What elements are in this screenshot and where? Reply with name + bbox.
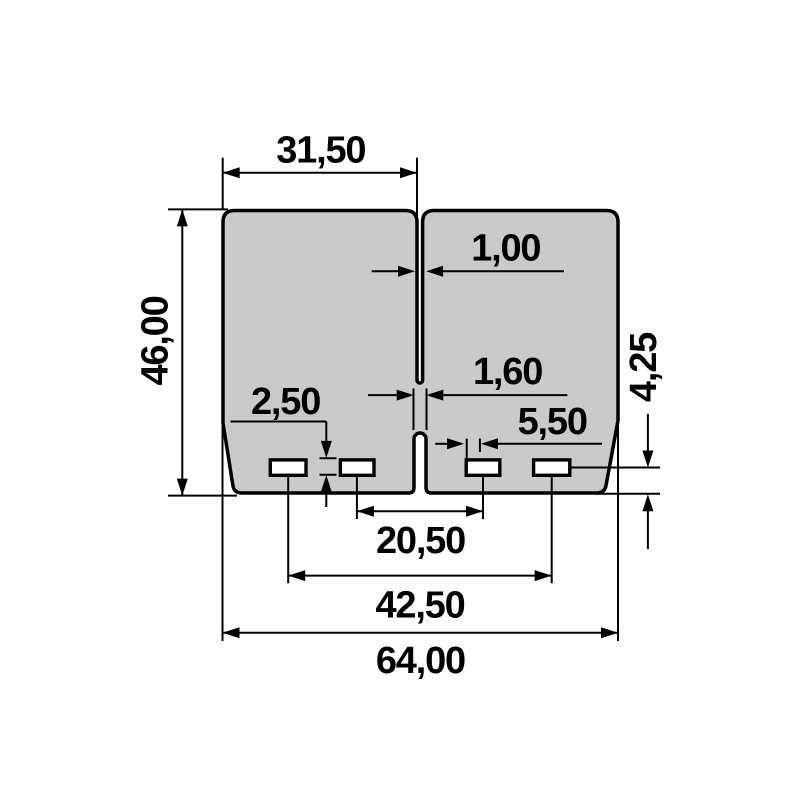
dimension 64,00 (total width): [223, 421, 619, 641]
leader lines from slot holes: [288, 477, 552, 583]
dimension 42,50: [288, 575, 552, 577]
svg-text:31,50: 31,50: [276, 130, 365, 172]
svg-text:5,50: 5,50: [518, 401, 587, 443]
svg-text:1,00: 1,00: [471, 228, 540, 270]
dimension 1,00 (top slot width): [372, 270, 564, 272]
svg-text:64,00: 64,00: [376, 640, 465, 682]
svg-text:20,50: 20,50: [376, 520, 465, 562]
svg-text:2,50: 2,50: [251, 381, 320, 423]
slot hole R2 (right petal, right): [534, 460, 570, 475]
dimension 4,25 (right, slot hole to bottom edge): [572, 414, 661, 549]
slot hole L1 (left petal, left): [270, 460, 306, 475]
svg-text:42,50: 42,50: [375, 585, 464, 627]
svg-text:4,25: 4,25: [623, 332, 665, 402]
dimension 5,50 (slot hole width): [435, 439, 602, 459]
dimension 2,50 (slot hole height): [231, 422, 337, 508]
dimension 20,50: [357, 510, 483, 512]
dimension 31,50 (top width): [223, 158, 417, 228]
svg-text:46,00: 46,00: [135, 296, 177, 385]
dimension 46,00 (left height): [168, 209, 237, 495]
svg-text:1,60: 1,60: [473, 351, 542, 393]
reed petal pair outline: [223, 211, 618, 494]
slot hole L2 (left petal, right): [340, 460, 374, 475]
dimension 1,60 (bottom slot width): [368, 389, 567, 431]
slot hole R1 (right petal, left): [466, 460, 500, 475]
